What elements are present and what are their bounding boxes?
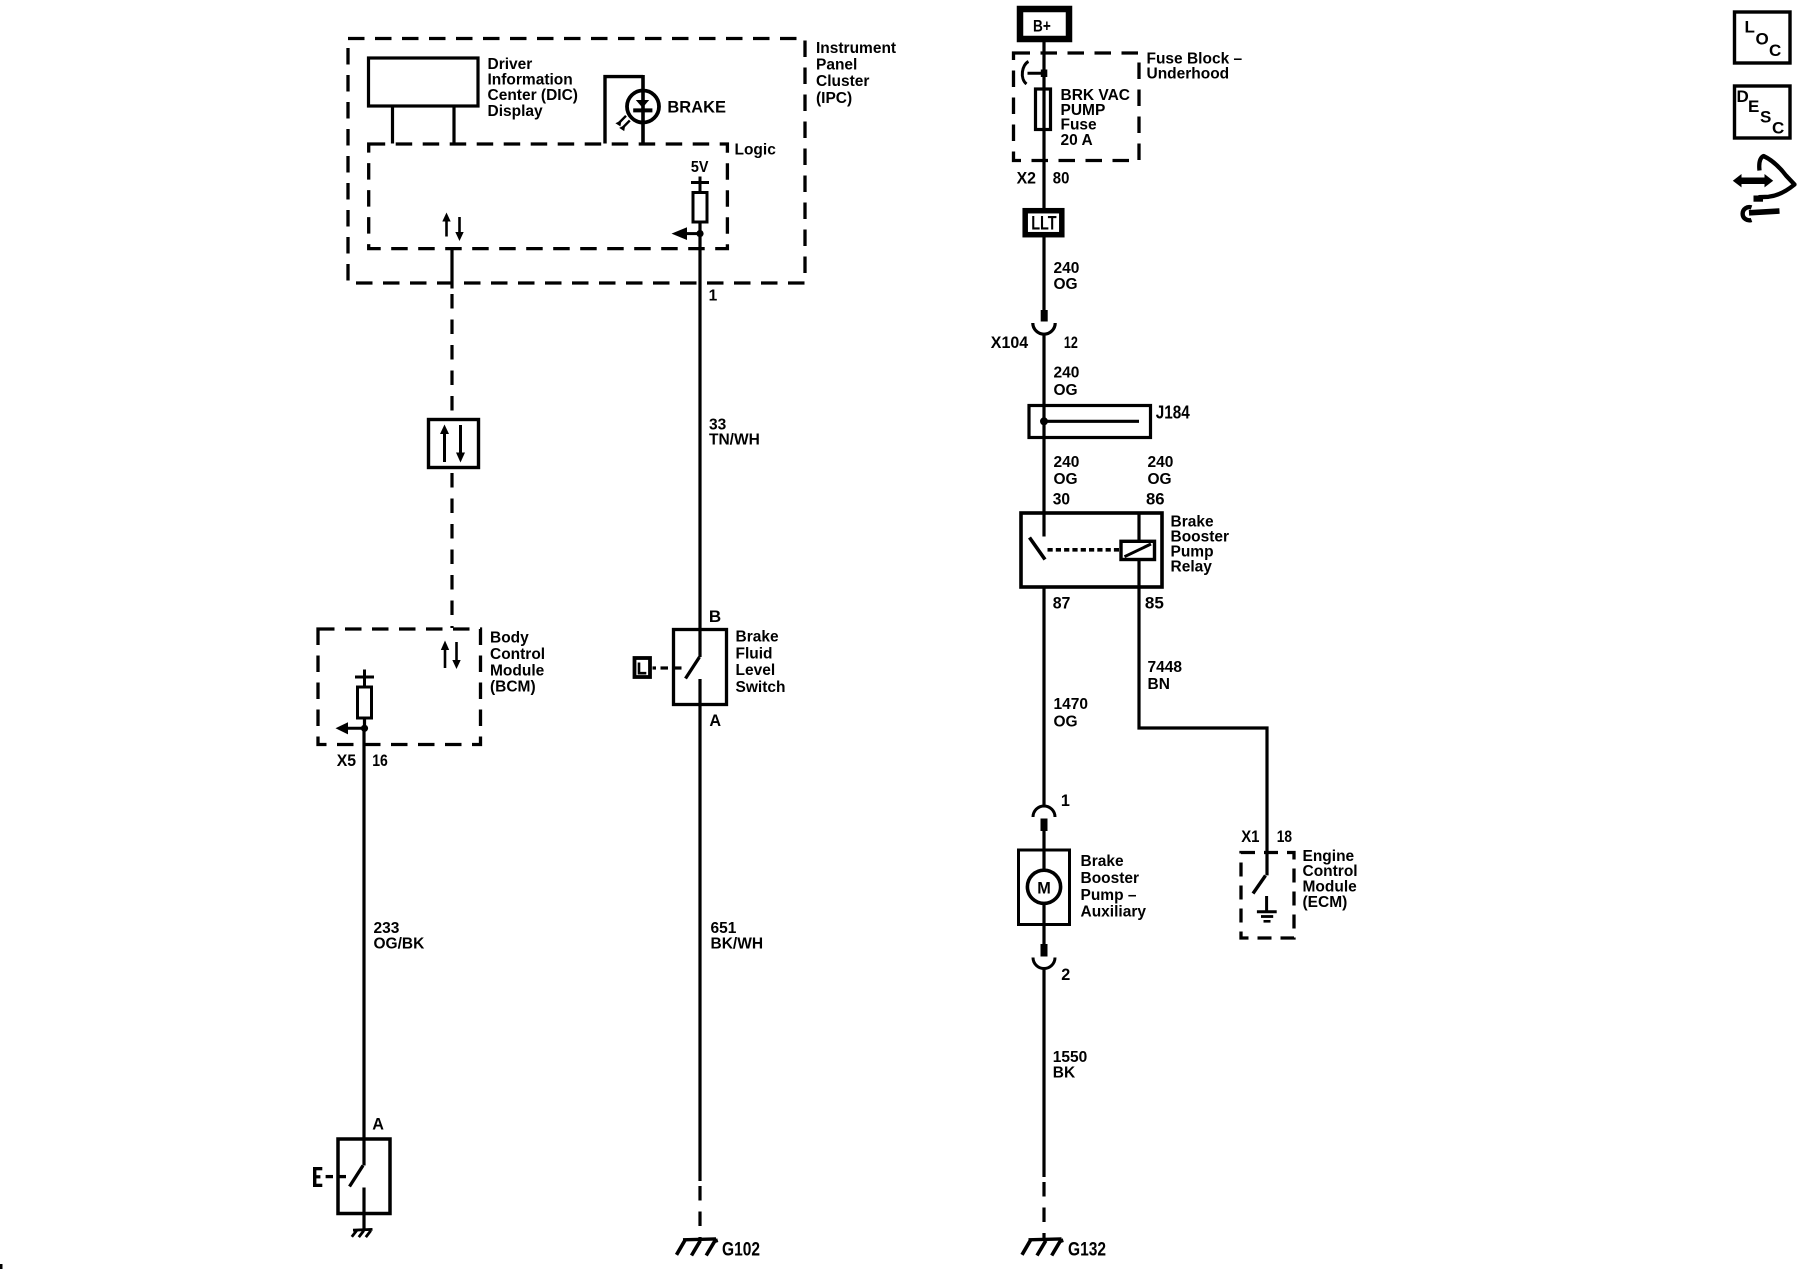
- ECM internal switch: [1253, 876, 1266, 894]
- label G102: [722, 1239, 760, 1261]
- logic box (dashed): [369, 144, 728, 249]
- svg-text:1: 1: [709, 287, 718, 304]
- ground (park brake switch): [352, 1229, 373, 1237]
- label Brake Booster Pump - Auxiliary: [1081, 853, 1147, 920]
- svg-text:Cluster: Cluster: [816, 73, 869, 90]
- label connector X2 pin 80: [1017, 168, 1070, 187]
- label relay pins 30 86: [1053, 490, 1165, 509]
- svg-text:5V: 5V: [691, 159, 709, 176]
- label Instrument Panel Cluster (IPC): [816, 40, 896, 107]
- label pin B (fluid level switch): [709, 607, 721, 626]
- svg-text:240: 240: [1054, 260, 1080, 277]
- svg-text:L: L: [1745, 18, 1755, 37]
- svg-text:16: 16: [372, 751, 388, 770]
- svg-text:BN: BN: [1148, 676, 1170, 693]
- label connector X1 pin 18: [1241, 827, 1292, 846]
- switch Brake Fluid Level: [674, 630, 727, 705]
- svg-text:Fluid: Fluid: [736, 645, 773, 662]
- label BRK VAC PUMP Fuse 20 A: [1061, 87, 1130, 149]
- switch Park Brake: [338, 1139, 390, 1230]
- svg-text:B: B: [709, 607, 721, 626]
- signal arrow (BCM input): [336, 722, 369, 734]
- in-line connector pin 2 (pump): [1033, 944, 1055, 1177]
- svg-text:Level: Level: [736, 662, 776, 679]
- label pin A (park brake switch): [372, 1116, 384, 1134]
- relay coil: [1121, 513, 1155, 560]
- svg-text:Booster: Booster: [1081, 870, 1140, 887]
- svg-text:OG: OG: [1054, 382, 1078, 399]
- label Logic: [735, 142, 777, 159]
- DIC display pin wires: [393, 106, 455, 144]
- svg-text:Center (DIC): Center (DIC): [488, 87, 578, 104]
- icon box DESC: [1735, 86, 1791, 138]
- svg-text:B+: B+: [1033, 16, 1051, 35]
- label Driver Information Center (DIC) Display: [488, 56, 578, 120]
- label wire 33 TN/WH: [709, 417, 760, 449]
- indicator LED BRAKE: [605, 75, 659, 144]
- label pin 1 (IPC): [709, 287, 718, 304]
- serial data arrows (logic box): [442, 213, 463, 242]
- label pin 1 (pump): [1061, 792, 1070, 810]
- battery feed B+: [1020, 9, 1069, 39]
- svg-text:18: 18: [1277, 827, 1292, 846]
- svg-text:LLT: LLT: [1031, 213, 1056, 235]
- relay actuation dashed link: [1048, 548, 1120, 552]
- connector reference E: [313, 1167, 346, 1187]
- svg-text:OG: OG: [1054, 713, 1078, 730]
- wire relay 87 to pump connector 1: [1042, 587, 1045, 806]
- 5V supply tap: [691, 177, 709, 193]
- svg-text:Brake: Brake: [736, 629, 779, 646]
- svg-text:Pump –: Pump –: [1081, 887, 1137, 904]
- label wire 240 OG (below X104): [1054, 365, 1080, 399]
- label wire 240 OG (above X104): [1054, 260, 1080, 293]
- svg-text:Display: Display: [488, 103, 544, 120]
- svg-text:OG/BK: OG/BK: [374, 935, 426, 952]
- icon box LOC: [1735, 12, 1791, 63]
- icon navigation arrows and wrench: [1733, 156, 1795, 220]
- label wire 233 OG/BK: [374, 920, 426, 952]
- module box Instrument Panel Cluster (IPC): [348, 39, 805, 284]
- label wire 651 BK/WH: [711, 920, 764, 952]
- svg-text:86: 86: [1146, 490, 1165, 509]
- ground G132: [1022, 1239, 1062, 1256]
- in-line connector pin 1 (pump): [1033, 806, 1055, 850]
- label BRAKE: [667, 98, 726, 117]
- label Brake Fluid Level Switch: [736, 629, 786, 696]
- label Engine Control Module (ECM): [1303, 848, 1358, 911]
- svg-text:OG: OG: [1054, 471, 1078, 488]
- svg-text:1: 1: [1061, 792, 1070, 810]
- svg-text:(BCM): (BCM): [490, 679, 536, 696]
- svg-text:C: C: [1772, 119, 1784, 138]
- label pin 2 (pump): [1061, 966, 1070, 984]
- svg-text:Underhood: Underhood: [1147, 66, 1230, 83]
- svg-text:X2: X2: [1017, 168, 1036, 187]
- wire X104 to J184 and through to relay 30: [1042, 335, 1045, 536]
- label Body Control Module (BCM): [490, 630, 545, 696]
- label pin A (fluid level switch): [709, 712, 721, 730]
- wire B+ through fuse to LLT: [1042, 42, 1045, 208]
- resistor (BCM pull-up) with 5V tap: [355, 670, 374, 729]
- page edge mark: [0, 1264, 3, 1269]
- label wire 240 OG (left leg): [1054, 454, 1080, 488]
- svg-text:X104: X104: [991, 333, 1029, 352]
- svg-text:Logic: Logic: [735, 142, 777, 159]
- svg-text:80: 80: [1053, 168, 1070, 187]
- svg-text:Information: Information: [488, 72, 573, 89]
- svg-text:85: 85: [1145, 594, 1164, 613]
- serial data line (dashed) upper: [450, 294, 453, 418]
- svg-text:A: A: [709, 712, 721, 730]
- svg-text:BK/WH: BK/WH: [711, 935, 764, 952]
- svg-text:OG: OG: [1148, 471, 1172, 488]
- svg-text:240: 240: [1054, 365, 1080, 382]
- label Fuse Block - Underhood: [1147, 51, 1243, 83]
- splice pack J184: [1029, 406, 1151, 438]
- wire logic to IPC edge: [450, 249, 453, 289]
- svg-text:BK: BK: [1053, 1064, 1076, 1081]
- svg-text:240: 240: [1148, 454, 1174, 471]
- svg-text:1470: 1470: [1054, 696, 1088, 713]
- label Brake Booster Pump Relay: [1171, 513, 1230, 575]
- svg-text:BRAKE: BRAKE: [667, 98, 726, 117]
- svg-text:240: 240: [1054, 454, 1080, 471]
- svg-text:20 A: 20 A: [1061, 132, 1093, 149]
- svg-text:Instrument: Instrument: [816, 40, 896, 57]
- label wire 7448 BN: [1148, 659, 1183, 693]
- label X104 12: [991, 333, 1078, 352]
- option box LLT: [1025, 211, 1062, 235]
- svg-text:(IPC): (IPC): [816, 90, 852, 107]
- module box Fuse Block - Underhood: [1014, 53, 1140, 161]
- svg-text:D: D: [1737, 87, 1749, 106]
- svg-text:Switch: Switch: [736, 679, 786, 696]
- svg-text:87: 87: [1053, 594, 1071, 613]
- svg-text:2: 2: [1061, 966, 1070, 984]
- svg-text:1550: 1550: [1053, 1049, 1087, 1066]
- wire relay 85 to ECM X1-18: [1139, 560, 1267, 876]
- wire resistor to brake fluid level switch pin B: [698, 222, 701, 657]
- relay switch contact: [1030, 538, 1046, 560]
- module box Body Control Module (BCM): [318, 629, 481, 745]
- svg-text:Panel: Panel: [816, 57, 857, 74]
- label relay pins 87 85: [1053, 594, 1164, 613]
- in-line connector X104 pin 12: [1033, 310, 1055, 334]
- label wire 1550 BK: [1053, 1049, 1087, 1082]
- svg-text:X5: X5: [337, 751, 356, 770]
- relay box Brake Booster Pump Relay: [1021, 513, 1162, 587]
- svg-text:30: 30: [1053, 490, 1070, 509]
- ground G102: [677, 1239, 717, 1256]
- svg-text:G102: G102: [722, 1239, 760, 1261]
- svg-text:OG: OG: [1054, 276, 1078, 293]
- svg-text:Body: Body: [490, 630, 529, 647]
- svg-text:M: M: [1037, 880, 1051, 898]
- dashed wire to ground G132: [1042, 1182, 1045, 1238]
- wire fluid switch pin A to G102: [698, 705, 701, 1182]
- label G132: [1068, 1239, 1106, 1261]
- svg-text:Module: Module: [490, 662, 545, 679]
- svg-text:C: C: [1769, 41, 1781, 60]
- svg-text:Auxiliary: Auxiliary: [1081, 904, 1147, 921]
- DIC display box: [369, 58, 479, 106]
- svg-text:E: E: [1748, 97, 1759, 116]
- svg-text:X1: X1: [1241, 827, 1259, 846]
- label 5V: [691, 159, 709, 176]
- label wire 240 OG (right leg): [1148, 454, 1174, 488]
- svg-text:Brake: Brake: [1081, 853, 1124, 870]
- serial data line (dashed) lower: [450, 473, 453, 628]
- fluid level sensor L: [635, 658, 682, 677]
- svg-text:Relay: Relay: [1171, 558, 1213, 575]
- fuse element curl: [1022, 62, 1047, 85]
- svg-text:Driver: Driver: [488, 56, 533, 73]
- fuse BRK VAC PUMP 20 A body: [1036, 89, 1051, 130]
- motor Brake Booster Pump - Auxiliary: [1019, 850, 1070, 944]
- svg-text:O: O: [1756, 30, 1769, 49]
- svg-text:12: 12: [1064, 333, 1078, 352]
- signal arrow to logic: [672, 227, 704, 240]
- svg-text:7448: 7448: [1148, 659, 1183, 676]
- wire LLT to X104: [1042, 235, 1045, 310]
- serial data arrows (BCM): [441, 641, 461, 670]
- svg-text:A: A: [372, 1116, 384, 1134]
- serial data link box: [429, 420, 479, 468]
- svg-text:G132: G132: [1068, 1239, 1106, 1261]
- module box Engine Control Module (ECM): [1241, 853, 1294, 939]
- ECM internal ground: [1257, 896, 1277, 921]
- svg-text:TN/WH: TN/WH: [709, 431, 760, 448]
- wire BCM X5-16 to park brake switch: [362, 728, 365, 1165]
- svg-text:J184: J184: [1156, 401, 1191, 422]
- label J184: [1156, 401, 1191, 422]
- label connector X5 pin 16: [337, 751, 388, 770]
- label wire 1470 OG: [1054, 696, 1088, 730]
- svg-text:(ECM): (ECM): [1303, 894, 1348, 911]
- resistor R (IPC pull-up): [693, 193, 707, 223]
- dashed wire to ground G102: [698, 1186, 701, 1238]
- svg-text:Control: Control: [490, 646, 545, 663]
- svg-text:S: S: [1760, 108, 1771, 127]
